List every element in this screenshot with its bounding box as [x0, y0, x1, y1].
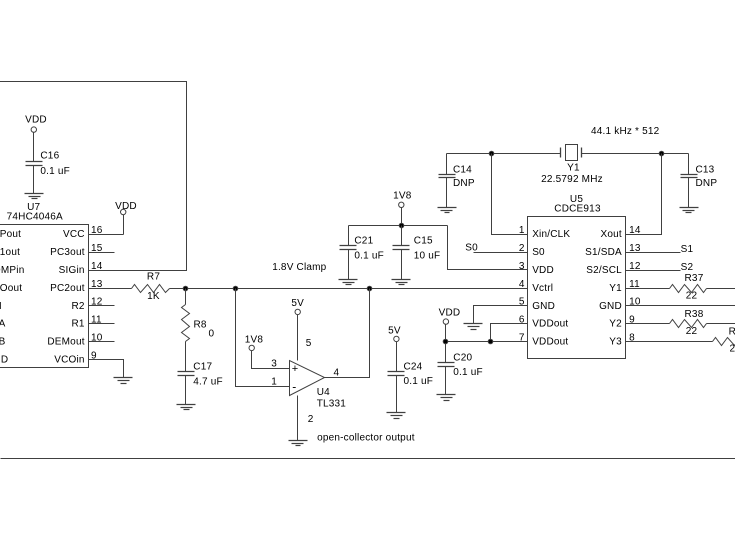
resistor R8 [182, 289, 215, 372]
svg-text:S1/SDA: S1/SDA [585, 247, 622, 258]
svg-text:S0: S0 [532, 247, 545, 258]
ground (U5 GND pin5) [464, 324, 483, 330]
svg-text:22.5792 MHz: 22.5792 MHz [541, 174, 603, 185]
U7 left pin name C1A (partially off-page) [0, 319, 6, 330]
svg-text:Y1: Y1 [567, 163, 580, 174]
svg-text:Y2: Y2 [609, 319, 622, 330]
capacitor C15 [393, 226, 441, 280]
U7 pin 12 name R2 [72, 297, 103, 312]
svg-text:5: 5 [519, 297, 525, 308]
U5 reference designator [570, 194, 583, 205]
power VDD symbol (C16) [25, 115, 47, 162]
svg-text:C21: C21 [354, 236, 373, 247]
svg-text:VDD: VDD [439, 307, 461, 318]
svg-text:R1: R1 [72, 319, 85, 330]
op-amp U4 triangle [290, 361, 325, 396]
ground (C21) [339, 280, 358, 285]
svg-text:SIGin: SIGin [59, 265, 85, 276]
U7 pin 9 name VCOin [54, 350, 97, 365]
wire main Vctrl net U7 pin13 to U5 pin4 [89, 288, 528, 290]
svg-text:5: 5 [306, 338, 312, 349]
U7 left pin name GND (partially off-page) [0, 355, 8, 366]
svg-text:R2: R2 [72, 301, 85, 312]
IC U5 CDCE913 box [528, 217, 626, 359]
svg-text:DNP: DNP [453, 178, 475, 189]
junction node at op-amp inverting branch [233, 286, 238, 291]
U5 pin 14 stub [626, 234, 641, 236]
U5 pin 2 name S0 [519, 243, 545, 258]
power 1V8 symbol (U4 pin3) [245, 334, 264, 350]
svg-text:U4: U4 [317, 387, 330, 398]
svg-text:PC1out: PC1out [0, 247, 20, 258]
svg-text:R3: R3 [729, 326, 735, 337]
svg-text:VDD: VDD [25, 115, 47, 126]
U7 left pin name COMPin (partially off-page) [0, 265, 24, 276]
svg-text:0.1 uF: 0.1 uF [354, 251, 384, 262]
U7 pin 10 name DEMout [47, 333, 102, 348]
U7 pin 15 stub no-connect [89, 252, 115, 254]
svg-text:12: 12 [91, 297, 103, 308]
power 5V symbol (U4 pin5) [291, 298, 304, 315]
net label S0 wire to U5 pin2 [465, 243, 527, 254]
svg-text:3: 3 [519, 261, 525, 272]
svg-text:74HC4046A: 74HC4046A [7, 212, 63, 223]
svg-text:S1: S1 [681, 244, 694, 255]
svg-text:5V: 5V [291, 298, 304, 309]
U5 pin 11 name Y1 [609, 279, 640, 294]
svg-text:2: 2 [308, 414, 314, 425]
junction node at R8 top [183, 286, 188, 291]
net label S2 wire [626, 262, 694, 273]
wire VDD to U5 pin7 and C20 [446, 324, 528, 363]
U7 left pin name C1B (partially off-page) [0, 337, 6, 348]
wire crystal net left [447, 153, 561, 155]
U7 pin 16 name VCC [63, 225, 103, 240]
U7 pin 10 stub no-connect [89, 341, 115, 343]
U4 pin 2 wire to ground [298, 396, 314, 441]
U5 pin 5 wire to ground [474, 306, 528, 324]
svg-text:INH: INH [0, 301, 2, 312]
junction node Xin branch [489, 151, 494, 156]
U5 pin 5 name GND [519, 297, 555, 312]
svg-text:DNP: DNP [696, 178, 718, 189]
svg-text:2: 2 [519, 243, 525, 254]
U4 pin 1 wire [236, 289, 290, 388]
U5 pin 3 name VDD [519, 261, 554, 276]
svg-text:5V: 5V [388, 326, 401, 337]
svg-text:S0: S0 [465, 243, 478, 254]
U4 pin 4 output wire [325, 289, 370, 379]
U7 left pin name PC1out (partially off-page) [0, 247, 20, 258]
svg-text:GND: GND [599, 301, 622, 312]
U4 pin 5 wire [298, 315, 312, 361]
svg-text:PCPout: PCPout [0, 229, 21, 240]
power VDD symbol (U5 VDDout) [439, 307, 461, 324]
svg-text:R38: R38 [685, 309, 704, 320]
junction node VDD/C20 [443, 339, 448, 344]
svg-text:S2: S2 [681, 262, 694, 273]
U7 pin 16 stub to VDD [89, 215, 124, 235]
svg-text:1K: 1K [147, 291, 160, 302]
svg-text:22: 22 [686, 326, 698, 337]
svg-text:R37: R37 [685, 273, 704, 284]
svg-text:C20: C20 [453, 352, 472, 363]
svg-text:C1A: C1A [0, 319, 6, 330]
U5 pin 7 name VDDout [519, 333, 569, 348]
U7 pin 11 name R1 [72, 315, 103, 330]
svg-text:0.1 uF: 0.1 uF [404, 376, 434, 387]
svg-text:10: 10 [629, 297, 641, 308]
U4 pin 3 wire [252, 351, 290, 370]
svg-text:1.8V Clamp: 1.8V Clamp [272, 262, 326, 273]
sheet border line [1, 458, 735, 460]
svg-text:Vctrl: Vctrl [532, 283, 553, 294]
U5 pin 12 name S2/SCL [586, 261, 641, 276]
junction node Xout branch [659, 151, 664, 156]
svg-text:Y3: Y3 [609, 337, 622, 348]
U7 left pin name PCPout (partially off-page) [0, 229, 21, 240]
U5 part number CDCE913 [554, 204, 601, 215]
svg-text:0: 0 [209, 329, 215, 340]
resistor R37 [626, 273, 735, 301]
U4 part number TL331 [317, 398, 347, 409]
svg-text:C13: C13 [696, 165, 715, 176]
svg-text:VCC: VCC [63, 229, 85, 240]
svg-text:TL331: TL331 [317, 398, 347, 409]
ground (C17) [177, 405, 196, 410]
capacitor C20 [438, 352, 483, 394]
capacitor C16 [26, 151, 70, 194]
resistor R39 (partially off-page) [626, 326, 735, 354]
svg-text:3: 3 [271, 359, 277, 370]
ground (U7 VCOin) [114, 378, 133, 384]
svg-text:4: 4 [519, 279, 525, 290]
svg-text:2: 2 [730, 343, 735, 354]
svg-text:4.7 uF: 4.7 uF [193, 376, 223, 387]
svg-text:C1B: C1B [0, 337, 6, 348]
junction node 1V8 rail [399, 223, 404, 228]
svg-text:C15: C15 [414, 236, 433, 247]
svg-text:VCOout: VCOout [0, 283, 22, 294]
svg-text:open-collector output: open-collector output [317, 433, 415, 444]
note 44.1 kHz * 512 [591, 126, 660, 137]
ground (C13) [680, 208, 699, 213]
U5 pin 10 name GND [599, 297, 641, 312]
U7 reference designator [27, 202, 40, 213]
U5 pin 8 name Y3 [609, 333, 635, 348]
svg-text:C17: C17 [193, 362, 212, 373]
svg-text:7: 7 [519, 333, 525, 344]
capacitor C17 [178, 362, 223, 405]
ground (C15) [392, 280, 411, 285]
svg-text:VDD: VDD [115, 201, 137, 212]
svg-text:R8: R8 [194, 320, 207, 331]
svg-text:4: 4 [334, 367, 340, 378]
svg-text:1: 1 [271, 376, 277, 387]
wire crystal net right [582, 153, 689, 155]
svg-text:0.1 uF: 0.1 uF [453, 367, 483, 378]
svg-text:CDCE913: CDCE913 [554, 204, 601, 215]
wire Xout branch [641, 154, 662, 235]
U7 left pin name INH (partially off-page) [0, 301, 2, 312]
ground (U4 pin2) [289, 441, 308, 446]
U7 left pin name VCOout (partially off-page) [0, 283, 22, 294]
U7 part number 74HC4046A [7, 212, 63, 223]
svg-text:0.1 uF: 0.1 uF [40, 166, 70, 177]
svg-text:VDDout: VDDout [532, 337, 568, 348]
svg-text:14: 14 [91, 261, 103, 272]
capacitor C21 [340, 226, 384, 280]
power 5V symbol (C24) [388, 326, 401, 342]
svg-text:GND: GND [532, 301, 555, 312]
svg-text:Xout: Xout [601, 229, 622, 240]
capacitor C13 [681, 154, 718, 208]
U5 pin 4 name Vctrl [519, 279, 553, 294]
U5 pin 9 name Y2 [609, 315, 635, 330]
ground (C20) [437, 395, 456, 401]
svg-text:VCOin: VCOin [54, 355, 84, 366]
svg-text:GND: GND [0, 355, 8, 366]
U7 pin 13 name PC2out [50, 279, 103, 294]
U7 pin 15 name PC3out [50, 243, 103, 258]
svg-text:DEMout: DEMout [47, 337, 84, 348]
wire Xin/CLK branch [492, 154, 514, 235]
net label S1 wire [626, 244, 694, 255]
svg-text:R7: R7 [147, 271, 160, 282]
U7 pin 11 stub no-connect [89, 323, 115, 325]
junction node pin6/pin7 tie [488, 339, 493, 344]
svg-text:6: 6 [519, 315, 525, 326]
svg-text:-: - [292, 380, 296, 394]
svg-text:C16: C16 [40, 151, 59, 162]
svg-text:22: 22 [686, 290, 698, 301]
svg-text:VDDout: VDDout [532, 319, 568, 330]
svg-text:C14: C14 [453, 165, 472, 176]
svg-text:Y1: Y1 [609, 283, 622, 294]
note open-collector output [317, 433, 415, 444]
ground (C24) [387, 413, 406, 419]
U5 pin 6 name VDDout [519, 315, 569, 330]
svg-text:PC3out: PC3out [50, 247, 85, 258]
U5 pin 14 name Xout [601, 225, 641, 240]
junction node at op-amp output branch [367, 286, 372, 291]
U5 pin 1 name Xin/CLK [519, 225, 571, 240]
resistor R38 [626, 309, 735, 337]
crystal Y1 [541, 145, 603, 185]
resistor R7 [132, 271, 170, 302]
svg-text:1V8: 1V8 [393, 191, 412, 202]
ground (C16) [25, 194, 44, 199]
capacitor C24 [388, 342, 434, 413]
svg-text:44.1 kHz * 512: 44.1 kHz * 512 [591, 126, 660, 137]
svg-text:VDD: VDD [532, 265, 554, 276]
svg-text:COMPin: COMPin [0, 265, 24, 276]
U5 pin 10 GND wire [626, 305, 735, 307]
svg-text:C24: C24 [404, 361, 423, 372]
svg-text:PC2out: PC2out [50, 283, 85, 294]
capacitor C14 [439, 154, 475, 208]
svg-text:1V8: 1V8 [245, 334, 264, 345]
svg-text:S2/SCL: S2/SCL [586, 265, 622, 276]
power VDD symbol (U7 VCC) [115, 201, 137, 215]
U5 pin 1 stub [514, 234, 528, 236]
U7 pin 12 stub no-connect [89, 305, 115, 307]
svg-text:10 uF: 10 uF [414, 251, 441, 262]
net label 1.8V Clamp [272, 262, 326, 273]
svg-text:Xin/CLK: Xin/CLK [532, 229, 570, 240]
svg-text:+: + [292, 363, 298, 375]
U7 pin 9 wire to ground [89, 360, 124, 378]
wire 1V8 rail [349, 208, 528, 270]
U4 reference designator [317, 387, 330, 398]
power 1V8 symbol (clamp rail) [393, 191, 412, 208]
U7 pin 14 name SIGin [59, 261, 103, 276]
IC U7 74HC4046A box [0, 225, 89, 368]
wire SIGin net from off-page to U7 pin 14 [0, 82, 187, 271]
U5 pin 13 name S1/SDA [585, 243, 641, 258]
ground (C14) [438, 208, 457, 213]
